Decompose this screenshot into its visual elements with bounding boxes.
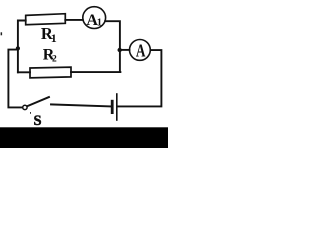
svg-text:S: S [34,113,42,129]
svg-text:1: 1 [51,31,57,45]
svg-text:A: A [136,40,146,60]
svg-text:2: 2 [52,55,57,65]
svg-text:1: 1 [97,18,102,29]
